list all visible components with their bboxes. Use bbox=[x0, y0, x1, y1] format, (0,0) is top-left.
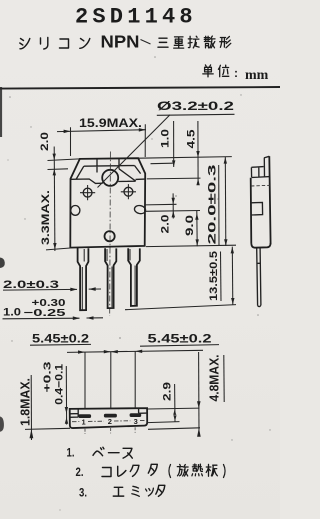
svg-text:9.0: 9.0 bbox=[184, 215, 196, 236]
subtitle katakana ri bbox=[41, 38, 48, 50]
legend item 2 kanji ban bbox=[206, 464, 217, 476]
leg 1 inner line bbox=[82, 249, 84, 310]
svg-text:1.: 1. bbox=[67, 448, 75, 460]
scan artifact left edge blob 2 bbox=[0, 417, 4, 432]
side view leg tip bbox=[258, 305, 261, 306]
leg 2 inner line bbox=[107, 249, 112, 307]
right side dimple bbox=[134, 205, 147, 215]
dim 1.8MAX extension bbox=[25, 428, 70, 429]
side view hidden dashed line bbox=[251, 184, 270, 187]
legend item 2 kanji netsu bbox=[192, 464, 203, 476]
legend item 1 katakana be bbox=[93, 447, 104, 455]
subtitle kanji san bbox=[158, 38, 168, 47]
bottom view pin2 section bbox=[104, 414, 117, 418]
dim 4.5 arrows bbox=[196, 151, 200, 185]
right cross hole bbox=[121, 184, 136, 199]
dim 4.8MAX arrows bbox=[197, 401, 201, 437]
dim 4.8MAX line bbox=[198, 352, 200, 434]
dim 2.0 leg right arrow bbox=[89, 288, 101, 290]
dim 1.8MAX arrow bbox=[30, 429, 34, 438]
svg-text:4.8MAX.: 4.8MAX. bbox=[207, 355, 221, 402]
dim 2.8 arrows bbox=[173, 409, 177, 421]
legend item 3 katakana mi bbox=[132, 486, 139, 496]
dim 20.0 line bbox=[224, 157, 227, 246]
dim 2.0 right extension B bbox=[145, 210, 200, 213]
svg-text:3.: 3. bbox=[79, 488, 87, 500]
dim 2.0 right line bbox=[172, 193, 174, 218]
subtitle kanji juu bbox=[174, 37, 184, 48]
svg-text:1.0: 1.0 bbox=[160, 129, 172, 148]
dim 4.5 line bbox=[197, 121, 199, 185]
leg 3 (right) outline bbox=[128, 248, 140, 306]
dim 1.0 line bbox=[173, 121, 175, 167]
mounting hole (3.2 dia) bbox=[102, 170, 118, 186]
subtitle katakana ko bbox=[60, 39, 69, 48]
bottom view centerline stubs bbox=[85, 427, 135, 434]
bottom view pin3 section bbox=[130, 413, 142, 417]
legend item 2 katakana ko bbox=[102, 468, 111, 477]
dim 2.0 left extension lines bbox=[48, 159, 80, 170]
bottom view pin1 section bbox=[78, 414, 91, 418]
svg-text:15.9MAX.: 15.9MAX. bbox=[79, 116, 142, 130]
dim 2.0 left arrows bbox=[53, 154, 57, 176]
scan speckles bbox=[7, 56, 270, 510]
bottom view horizontal centerline bbox=[72, 421, 146, 422]
svg-text:13.5±0.5: 13.5±0.5 bbox=[208, 251, 220, 301]
svg-text:1: 1 bbox=[82, 418, 86, 427]
legend item 3 katakana e bbox=[113, 487, 123, 496]
subtitle kanji kaku bbox=[188, 36, 199, 48]
svg-text:2.0: 2.0 bbox=[39, 132, 51, 151]
subtitle kanji kei bbox=[220, 37, 231, 48]
dim 2.0 right arrows bbox=[172, 198, 176, 218]
side view body bottom bbox=[251, 243, 270, 248]
unit label kanji tan bbox=[203, 65, 213, 77]
legend item 2 katakana ta bbox=[148, 464, 157, 475]
svg-text:2.0: 2.0 bbox=[159, 215, 171, 234]
vertical centerline bbox=[109, 152, 112, 317]
legend item 1 katakana chouon bbox=[109, 452, 120, 454]
svg-text:−0.25: −0.25 bbox=[24, 307, 66, 319]
svg-text:2SD1148: 2SD1148 bbox=[75, 4, 197, 29]
unit label kanji i bbox=[218, 65, 228, 77]
leg 3 inner line bbox=[130, 249, 135, 305]
svg-text:2.: 2. bbox=[76, 467, 84, 479]
dim 1.0 lower extension bbox=[151, 162, 173, 165]
pin pitch arrows bbox=[78, 350, 142, 354]
dim 5.45 left underline bbox=[30, 343, 91, 346]
svg-text:1.8MAX.: 1.8MAX. bbox=[19, 378, 33, 426]
legend item 3 katakana ta bbox=[156, 485, 165, 496]
bottom view outline bbox=[70, 408, 148, 428]
leg 2 (center) outline bbox=[105, 248, 116, 308]
svg-text:1.0: 1.0 bbox=[3, 307, 21, 319]
dim 1.0 leg underline and left arrow bbox=[3, 317, 80, 320]
dim 13.5 underline bbox=[220, 252, 223, 302]
dim 13.5 arrows bbox=[231, 247, 235, 304]
lead center extension line bbox=[148, 422, 180, 423]
pin pitch dimension line bbox=[67, 350, 203, 352]
svg-text:3.3MAX.: 3.3MAX. bbox=[40, 190, 52, 245]
bottom edge right extension bbox=[146, 245, 236, 246]
svg-text:5.45±0.2: 5.45±0.2 bbox=[148, 331, 212, 345]
top edge right extension line bbox=[138, 157, 231, 159]
svg-text:Ø3.2±0.2: Ø3.2±0.2 bbox=[157, 99, 234, 113]
dim 2.0 leg underline and left arrow bbox=[3, 288, 77, 291]
svg-text:5.45±0.2: 5.45±0.2 bbox=[32, 332, 89, 346]
dim 2.8 line bbox=[174, 384, 176, 422]
subtitle katakana n bbox=[80, 39, 90, 49]
svg-text:2: 2 bbox=[108, 417, 112, 426]
legend item 1 katakana su bbox=[123, 448, 132, 458]
svg-text:4.5: 4.5 bbox=[185, 130, 197, 149]
svg-text:2.9: 2.9 bbox=[161, 382, 173, 401]
dim 13.5 line bbox=[231, 247, 234, 305]
dim 2.0/3.3 left shared line bbox=[53, 147, 56, 252]
dim 5.45 right underline bbox=[140, 345, 219, 347]
svg-text:mm: mm bbox=[245, 68, 269, 83]
stray scan mark bbox=[141, 40, 151, 45]
legend item 2 katakana ku bbox=[130, 465, 139, 476]
svg-text:20.0±0.3: 20.0±0.3 bbox=[206, 165, 218, 245]
subtitle katakana shi bbox=[20, 39, 30, 49]
dim 20.0 arrows bbox=[224, 157, 228, 246]
front face extension line bbox=[148, 407, 200, 410]
pin pitch extension lines bbox=[85, 351, 135, 408]
side view dimple notch bbox=[251, 202, 263, 215]
left side dimple bbox=[71, 206, 80, 216]
dim dia 3.2 underline bbox=[157, 114, 235, 115]
legend item 2 close paren bbox=[224, 465, 226, 478]
dim 20.0 underline bbox=[218, 165, 220, 246]
svg-text:2.0±0.3: 2.0±0.3 bbox=[3, 279, 59, 291]
bottom view left end step lines bbox=[70, 409, 78, 418]
svg-text:+0.3: +0.3 bbox=[43, 361, 54, 393]
horizontal rule bbox=[0, 87, 280, 89]
dim 9.0 line bbox=[196, 211, 198, 247]
svg-text:0.4−0.1: 0.4−0.1 bbox=[54, 364, 66, 405]
legend item 2 katakana re bbox=[118, 466, 126, 476]
leader line to hole bbox=[98, 115, 171, 188]
front view cap inner lines bbox=[71, 159, 145, 184]
dim 15.9MAX arrows bbox=[64, 128, 146, 133]
dim 0.4 arrows bbox=[65, 407, 69, 424]
bottom view right end step lines bbox=[139, 408, 148, 413]
lower hole bbox=[105, 231, 115, 241]
side view body edges bbox=[251, 156, 271, 244]
scan left edge dark band bbox=[0, 87, 2, 137]
dim 3.3MAX bottom extension bbox=[46, 248, 70, 250]
dim 0.4 line bbox=[65, 366, 67, 425]
left cross hole bbox=[80, 185, 95, 200]
dim 15.9MAX extension lines bbox=[71, 124, 146, 157]
leg tip extension line bbox=[125, 305, 236, 310]
front view body outline bbox=[70, 158, 145, 247]
svg-text:NPN: NPN bbox=[101, 32, 140, 52]
dim 2.0 right extension A bbox=[145, 203, 176, 206]
side view cap step bbox=[251, 167, 270, 178]
side view tab bbox=[264, 156, 269, 177]
subtitle kanji san2 bbox=[204, 36, 215, 48]
dim 1.0 arrow bbox=[172, 160, 175, 166]
dim 15.9MAX line bbox=[57, 130, 146, 132]
dim 1.8MAX line bbox=[30, 375, 32, 440]
scan artifact left edge blob 1 bbox=[0, 258, 5, 269]
dim 9.0 arrows bbox=[195, 213, 199, 245]
hole center extension line bbox=[147, 177, 201, 180]
leg 1 (left) outline bbox=[78, 248, 89, 310]
dim 1.0 leg right arrow bbox=[87, 317, 104, 319]
legend item 2 kanji hou bbox=[177, 464, 188, 476]
dim 3.3MAX bottom arrow bbox=[53, 243, 56, 249]
svg-text:3: 3 bbox=[134, 417, 138, 426]
side view leg bbox=[257, 248, 261, 306]
bottom edge extension right bbox=[148, 428, 200, 430]
legend item 3 katakana small tsu bbox=[146, 488, 154, 496]
legend item 2 open paren bbox=[169, 465, 171, 478]
svg-text::: : bbox=[234, 66, 238, 80]
